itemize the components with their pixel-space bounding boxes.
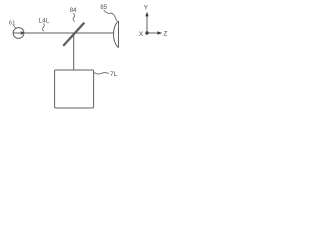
svg-text:L4L: L4L (39, 17, 50, 24)
svg-text:7L: 7L (110, 71, 118, 78)
svg-text:Z: Z (163, 31, 167, 38)
leader line for 61 (13, 25, 15, 28)
leader squiggle for 85 (104, 10, 117, 21)
Y axis line (146, 16, 148, 33)
wire: reflected beam down to detector (73, 33, 75, 70)
svg-text:Y: Y (144, 4, 149, 11)
Z axis arrowhead (157, 31, 162, 34)
wire: main beam line (Z axis direction) (24, 32, 113, 34)
leader wavy line for 7L (94, 72, 109, 74)
mirror 85 (curved front, flat back) (114, 21, 119, 47)
light source diameter line (13, 32, 23, 34)
leader squiggle for L4L (42, 23, 44, 31)
Z axis line (147, 32, 158, 34)
beamsplitter 84 (thick diagonal) (63, 23, 84, 46)
light source output arrowhead (21, 31, 25, 35)
svg-text:X: X (139, 31, 144, 38)
detector box 7L (55, 70, 94, 108)
light source 61 (circle symbol) (13, 28, 24, 39)
svg-text:61: 61 (9, 21, 16, 27)
leader squiggle for 84 (73, 13, 75, 22)
coordinate origin dot (X axis out of page) (145, 31, 148, 34)
Y axis arrowhead (145, 12, 148, 17)
